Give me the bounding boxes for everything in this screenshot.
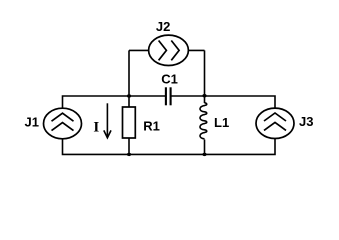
svg-text:J1: J1: [25, 114, 39, 129]
svg-text:I: I: [93, 119, 99, 135]
svg-text:R1: R1: [143, 118, 160, 133]
wire R1 bottom stub: [128, 138, 130, 154]
resistor R1: [123, 107, 136, 138]
wire right rail upper (corner to node B): [204, 50, 206, 96]
svg-text:C1: C1: [161, 72, 178, 87]
node B junction dot (right rail / middle wire): [202, 94, 206, 97]
svg-text:J3: J3: [299, 114, 313, 129]
source J3: [256, 108, 294, 138]
wire L1 top stub: [204, 96, 206, 103]
capacitor C1: [166, 87, 171, 105]
junction dot left rail / bottom wire: [127, 153, 131, 156]
wire L1 bottom stub: [204, 140, 206, 155]
source J2: [149, 35, 189, 65]
current arrow I: [104, 103, 111, 138]
node A junction dot (left rail / middle wire): [127, 94, 131, 97]
wire J2 left horizontal: [129, 49, 149, 51]
wire bottom rail (J1 bottom to J3 bottom): [63, 139, 276, 155]
wire R1 top stub: [128, 96, 130, 107]
wire J2 right horizontal: [188, 49, 205, 51]
svg-text:J2: J2: [156, 19, 170, 34]
wire left rail upper (corner to node A): [128, 50, 130, 96]
source J1: [44, 108, 82, 139]
wire middle right segment (C1 to J3 top): [171, 96, 275, 108]
svg-text:L1: L1: [214, 115, 229, 130]
junction dot right rail / bottom wire: [202, 153, 206, 156]
wire middle left segment (J1 top to C1): [63, 96, 166, 108]
inductor L1: [200, 103, 207, 139]
